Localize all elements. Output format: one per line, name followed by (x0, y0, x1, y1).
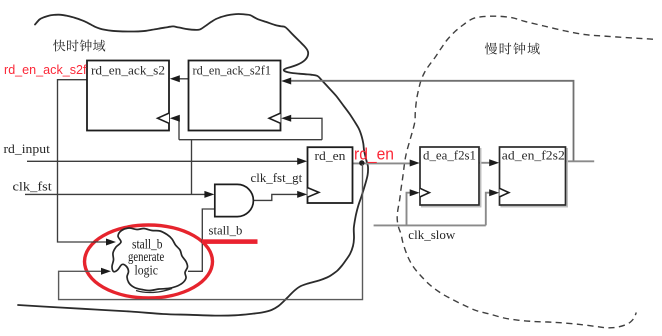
svg-text:stall_b: stall_b (209, 222, 243, 237)
wire AND gate output to rd_en clock (253, 194, 299, 200)
svg-text:rd_input: rd_input (4, 141, 51, 156)
wire d_ea_f2s1 Q to ad_en_f2s2 D (479, 162, 492, 164)
wire clk_fst horizontal into AND gate top input (25, 193, 207, 195)
label fast clock domain 快时钟域 (53, 40, 105, 52)
svg-text:rd_en_ack_s2f1: rd_en_ack_s2f1 (193, 64, 272, 78)
svg-text:clk_fst_gt: clk_fst_gt (251, 170, 303, 185)
clock input chevron of rd_en (308, 188, 319, 198)
flip-flop d_ea_f2s1 (422, 149, 481, 207)
clock input chevron of rd_en_ack_s2 (158, 113, 169, 123)
wire rd_input horizontal into rd_en D (27, 160, 299, 162)
flip-flop rd_en_ack_s2f1 (189, 61, 281, 131)
junction node rd_en (359, 160, 364, 165)
wire clk_slow riser to d_ea_f2s1 clock (407, 193, 413, 226)
wire clk_slow riser to ad_en_f2s2 clock (486, 193, 492, 226)
svg-text:ad_en_f2s2: ad_en_f2s2 (502, 149, 565, 163)
wire feedback ad_en_f2s2 Q back to rd_en_ack_s2f1 D (290, 81, 574, 161)
blob bottom squiggle stroke (136, 289, 172, 293)
red highlight ellipse around stall_b generate logic (85, 225, 213, 298)
clock input chevron of d_ea_f2s1 (420, 188, 429, 197)
svg-text:clk_fst: clk_fst (13, 179, 53, 194)
wire rd_en_ack_s2f1 Q to rd_en_ack_s2 D (178, 78, 189, 80)
wire clock branch to rd_en_ack_s2 clock (177, 118, 179, 139)
clock input chevron of rd_en_ack_s2f1 (269, 113, 280, 123)
svg-text:rd_en_ack_s2f: rd_en_ack_s2f (4, 62, 87, 77)
svg-text:logic: logic (135, 262, 158, 277)
red highlight bar under stall_b (202, 239, 258, 244)
wire stall_b from logic blob to AND gate bottom input (188, 209, 215, 271)
wire rd_en Q to d_ea_f2s1 D (net rd_en) (353, 162, 414, 164)
flip-flop rd_en_ack_s2 (87, 61, 169, 131)
slow clock domain boundary (freehand dashed curve) (397, 16, 653, 328)
clock input chevron of ad_en_f2s2 (500, 188, 509, 197)
flip-flop ad_en_f2s2 (501, 149, 567, 207)
net clk_slow horizontal (374, 224, 486, 226)
fast clock domain boundary (freehand solid curve) (18, 14, 368, 316)
net rd_en_ack_s2f: rd_en_ack_s2 Q down to stall generate logic (58, 80, 109, 242)
wire clk_fst riser to clock distribution (191, 140, 193, 195)
svg-text:clk_slow: clk_slow (408, 227, 456, 242)
wire clock distribution horizontal (179, 139, 322, 141)
stall_b generate logic block (freehand blob) (112, 228, 188, 291)
wire ad_en_f2s2 Q output (566, 160, 595, 162)
svg-text:d_ea_f2s1: d_ea_f2s1 (423, 149, 476, 163)
label slow clock domain 慢时钟域 (485, 43, 540, 55)
wire stall feedback: junction down, across bottom, up to stall logic (59, 164, 363, 300)
flip-flop rd_en (308, 147, 353, 203)
AND gate clock gating (215, 184, 254, 216)
svg-text:rd_en_ack_s2: rd_en_ack_s2 (91, 64, 165, 78)
svg-text:rd_en: rd_en (354, 145, 394, 164)
svg-text:rd_en: rd_en (315, 149, 347, 163)
wire clock branch to rd_en_ack_s2f1 clock (290, 118, 322, 139)
